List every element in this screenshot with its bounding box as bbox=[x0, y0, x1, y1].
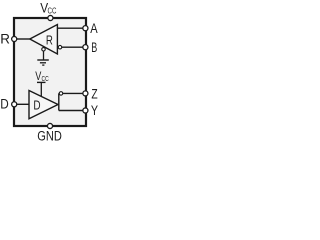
pin D bbox=[12, 102, 17, 107]
svg-text:B: B bbox=[91, 40, 97, 55]
wire enable to ground bbox=[43, 51, 45, 60]
pin A bbox=[83, 26, 88, 31]
inverting input bubble (B) bbox=[58, 45, 62, 49]
inverting output bubble (Z) bbox=[59, 92, 63, 96]
svg-text:Y: Y bbox=[91, 103, 98, 118]
pin GND bbox=[47, 123, 52, 128]
svg-text:Z: Z bbox=[91, 86, 97, 101]
receiver U1A bbox=[30, 25, 58, 55]
svg-text:D: D bbox=[33, 97, 40, 112]
svg-text:R: R bbox=[0, 31, 10, 46]
svg-text:R: R bbox=[46, 32, 53, 47]
pin B bbox=[83, 45, 88, 50]
pin R bbox=[12, 36, 17, 41]
wire Vcc tie to driver bbox=[40, 82, 42, 96]
wire B input bbox=[57, 46, 85, 48]
wire driver output branch bbox=[59, 93, 86, 110]
pin Y bbox=[83, 108, 88, 113]
driver U1B bbox=[29, 91, 58, 119]
svg-text:A: A bbox=[90, 21, 98, 36]
ground bbox=[37, 59, 49, 61]
wire A input bbox=[57, 27, 85, 29]
wire R output bbox=[14, 38, 30, 40]
wire D input bbox=[14, 103, 29, 105]
svg-text:D: D bbox=[0, 97, 9, 112]
Vcc rail bar bbox=[37, 81, 46, 83]
package outline U1 bbox=[14, 18, 86, 126]
pin Vcc bbox=[48, 15, 53, 20]
svg-text:CC: CC bbox=[48, 6, 57, 15]
receiver enable bubble bbox=[42, 48, 46, 52]
pin Z bbox=[83, 91, 88, 96]
svg-text:GND: GND bbox=[37, 129, 62, 143]
svg-text:V: V bbox=[35, 69, 41, 83]
